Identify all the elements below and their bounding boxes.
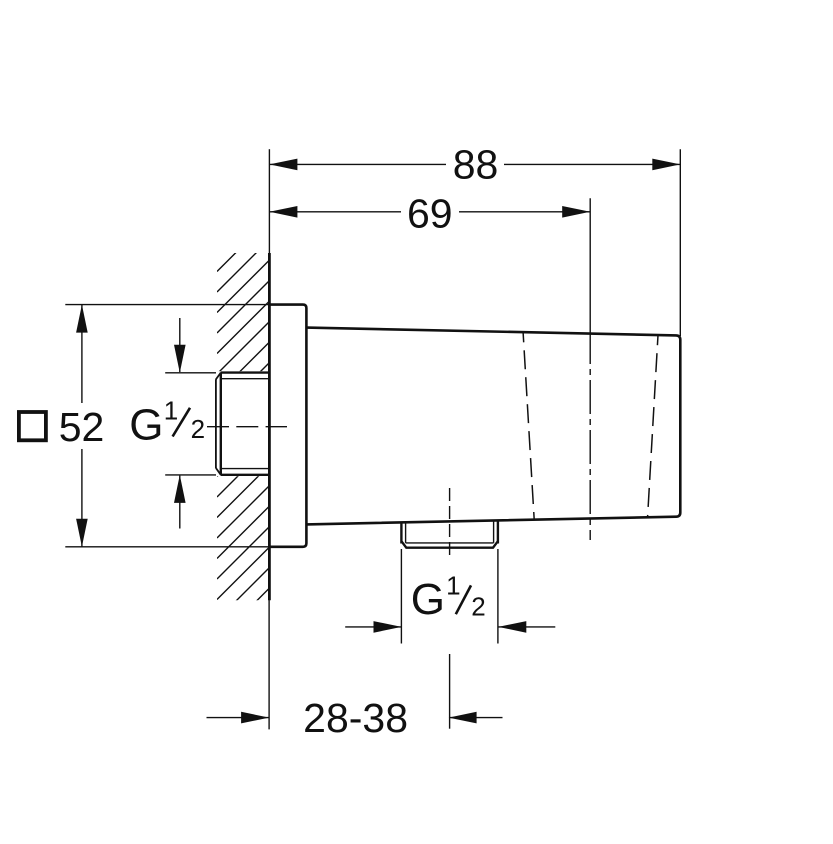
body silhouette dashed line 1 xyxy=(523,332,534,519)
outlet nipple outer bottom with chamfers xyxy=(401,541,498,548)
inlet thread OD top xyxy=(221,371,270,373)
outlet dim arrow right xyxy=(498,626,555,628)
dimension 52 extension top xyxy=(65,304,269,306)
square symbol xyxy=(19,412,46,440)
extension line 69 dim (thread end, dash-dot through body) xyxy=(589,198,591,330)
extension line left (88/69 dims, above wall) xyxy=(268,149,270,253)
dimension 52 arrow up xyxy=(76,305,88,333)
inlet thread root bottom (thin) xyxy=(222,468,270,470)
svg-text:2: 2 xyxy=(471,591,485,621)
body outline (top edge, right face, bottom edge) xyxy=(306,328,680,525)
outlet dim arrow left xyxy=(345,626,401,628)
inlet thread end face xyxy=(215,379,217,468)
small dim extension bottom xyxy=(165,474,216,476)
dimension 88 arrow right xyxy=(652,159,680,171)
dimension 28-38 arrow right xyxy=(449,717,503,719)
outlet center line (dash) xyxy=(449,488,451,557)
inlet center line (dash) xyxy=(207,426,287,428)
body silhouette dashed line 2 xyxy=(648,335,658,516)
outlet thread root right (thin) xyxy=(493,520,495,543)
dimension 69 arrow left xyxy=(269,206,297,218)
svg-text:G: G xyxy=(411,575,445,624)
dimension 28-38 arrow left xyxy=(207,717,269,719)
small arrow down xyxy=(179,318,181,372)
dimension 88 arrow left xyxy=(269,159,297,171)
wall line xyxy=(268,253,271,600)
svg-text:52: 52 xyxy=(59,404,105,450)
outlet nipple outer right xyxy=(497,520,499,544)
outlet extension right xyxy=(497,549,499,644)
inlet thread root top (thin) xyxy=(222,378,270,380)
svg-text:88: 88 xyxy=(453,141,499,187)
svg-text:2: 2 xyxy=(191,414,205,444)
small dim extension top xyxy=(165,372,216,374)
svg-text:28-38: 28-38 xyxy=(303,695,408,741)
dimension 69 arrow right xyxy=(562,206,590,218)
inlet thread OD bottom xyxy=(221,474,270,476)
inlet thread chamfer top xyxy=(216,373,221,380)
outlet thread root bottom (thin) xyxy=(406,542,494,544)
wall plate (escutcheon) xyxy=(269,305,306,547)
svg-text:1: 1 xyxy=(164,396,178,426)
dimension 52 extension bottom xyxy=(65,546,269,548)
dimension 52 line xyxy=(81,305,83,403)
dimension 69 line xyxy=(269,211,401,213)
28-38 extension line left (below wall) xyxy=(268,599,270,729)
inlet thread chamfer boundary xyxy=(220,373,222,475)
inlet thread chamfer bottom xyxy=(216,468,221,475)
outlet thread root left (thin) xyxy=(405,522,407,543)
extension line right (88 dim) xyxy=(679,149,681,336)
small arrow up xyxy=(179,476,181,529)
dimension 52 arrow down xyxy=(76,519,88,547)
outlet extension left xyxy=(400,549,402,644)
svg-text:G: G xyxy=(129,400,163,449)
wall hatch xyxy=(217,210,279,662)
dimension 88 line xyxy=(269,163,446,165)
outlet nipple outer left xyxy=(400,522,402,544)
svg-text:69: 69 xyxy=(407,190,453,236)
svg-text:1: 1 xyxy=(446,571,460,601)
inlet connector mask (white) xyxy=(215,371,269,476)
28-38 center extension line xyxy=(449,654,451,729)
